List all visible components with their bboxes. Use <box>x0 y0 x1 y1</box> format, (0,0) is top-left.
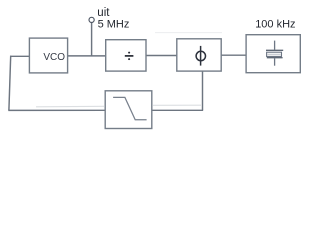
wire: phase detector output down <box>202 71 204 110</box>
block frequency divider box <box>106 40 146 71</box>
label 100 kHz <box>255 18 295 30</box>
crystal X1 symbol <box>266 41 283 66</box>
phase detector symbol (phi) <box>196 46 205 66</box>
wire: divider to phase detector <box>146 55 177 57</box>
wire: filter output to phase detector drop <box>152 109 203 111</box>
block phase detector box <box>177 39 221 71</box>
output terminal circle (uit) <box>89 17 94 22</box>
wire: VCO output to divider <box>68 55 106 57</box>
wire: left vertical feedback <box>9 56 11 111</box>
svg-text:100 kHz: 100 kHz <box>255 18 295 30</box>
ghost scan echo above bottom feedback wire (left segment) <box>36 105 104 108</box>
block low-pass filter box <box>105 91 152 129</box>
svg-text:uit: uit <box>97 7 110 19</box>
block crystal oscillator box <box>246 35 300 73</box>
ghost scan echo above phase-detector box <box>155 32 222 34</box>
block VCO box <box>29 38 67 73</box>
low-pass filter response curve <box>113 97 147 119</box>
wire: VCO input (left) <box>10 55 29 57</box>
label 5 MHz <box>98 18 130 30</box>
divider symbol (divide sign) <box>125 52 134 61</box>
ghost scan echo above bottom feedback wire (right segment) <box>153 104 201 106</box>
label uit <box>97 7 110 19</box>
wire: bottom feedback to filter input <box>8 109 105 111</box>
svg-text:5 MHz: 5 MHz <box>98 18 130 30</box>
wire: output tap vertical <box>91 23 93 57</box>
label VCO <box>43 52 65 63</box>
wire: phase detector to crystal <box>221 54 246 56</box>
svg-text:VCO: VCO <box>43 52 65 63</box>
